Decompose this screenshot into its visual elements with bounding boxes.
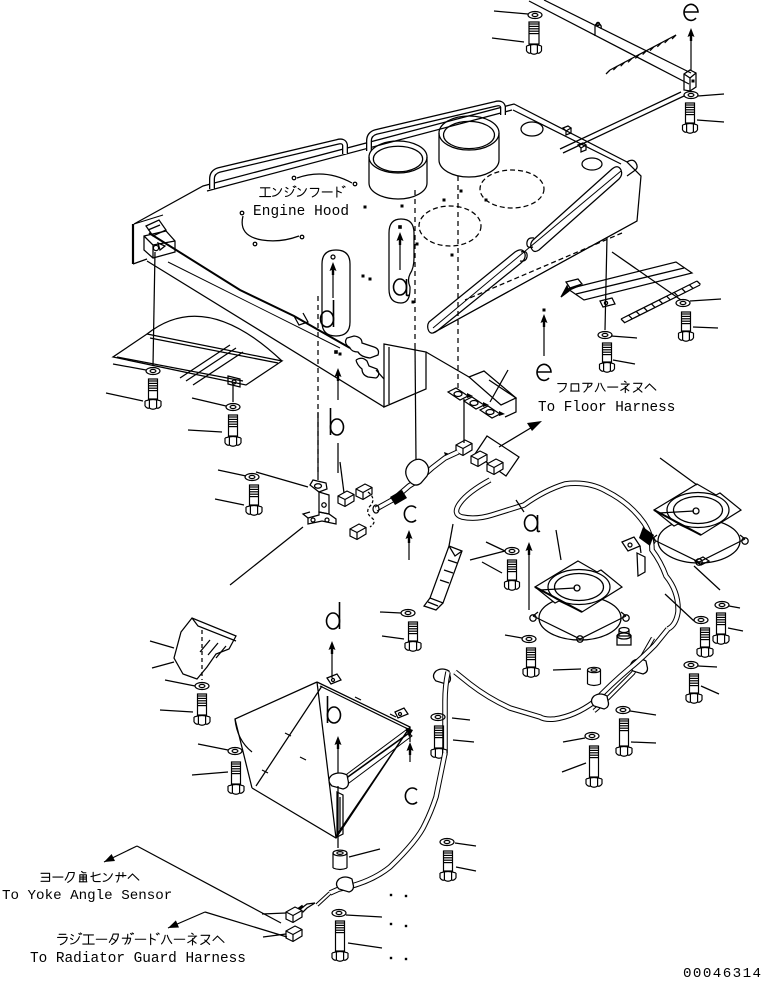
- svg-text:To Floor Harness: To Floor Harness: [538, 400, 675, 416]
- svg-text:0 0 0 4 6 3 1 4: 0 0 0 4 6 3 1 4: [683, 966, 760, 982]
- svg-text:To Yoke Angle Sensor: To Yoke Angle Sensor: [2, 888, 172, 904]
- svg-text:Engine Hood: Engine Hood: [253, 204, 349, 220]
- svg-text:To Radiator Guard Harness: To Radiator Guard Harness: [30, 951, 246, 967]
